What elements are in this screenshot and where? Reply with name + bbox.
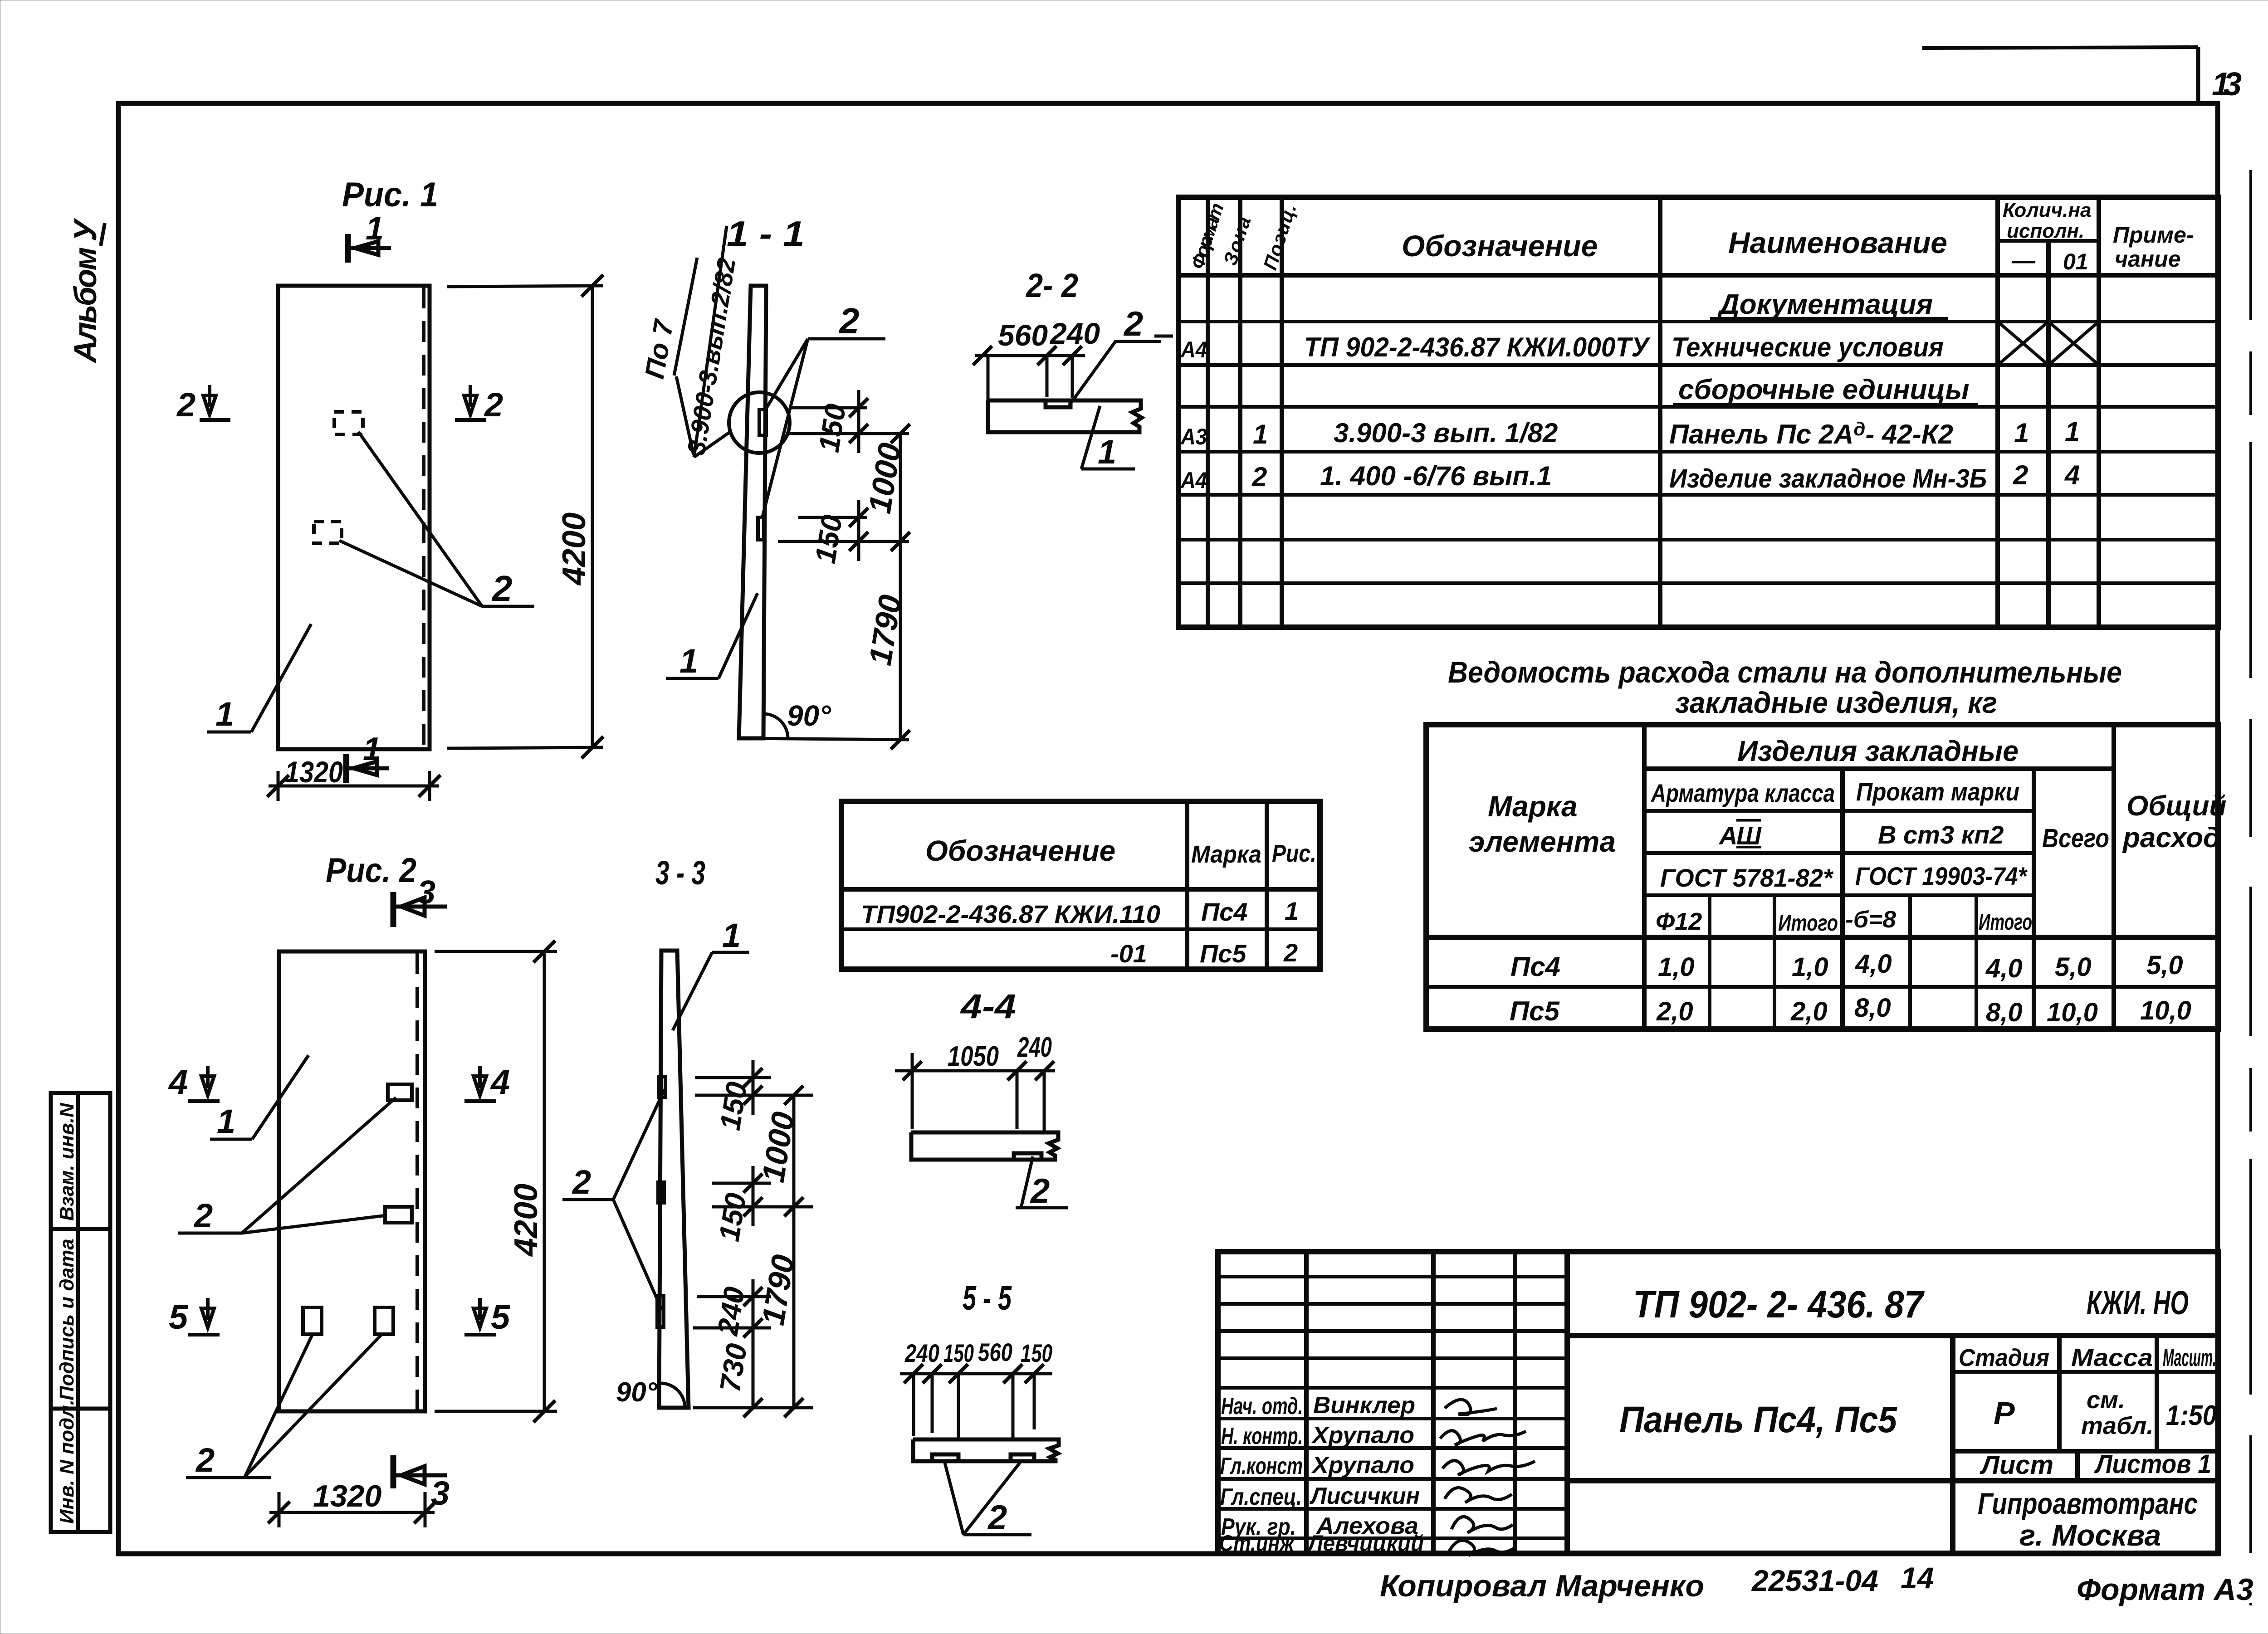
svg-text:табл.: табл. xyxy=(2081,1412,2153,1439)
svg-text:Всего: Всего xyxy=(2042,824,2109,853)
svg-text:4200: 4200 xyxy=(556,512,592,586)
svg-text:Колич.на: Колич.на xyxy=(2003,199,2091,221)
section cut mark 3 top xyxy=(393,874,447,927)
svg-text:150: 150 xyxy=(713,1190,753,1244)
dim 730 (3-3) xyxy=(743,1328,763,1417)
leader to item 1 (Ris.2) xyxy=(210,1055,308,1139)
svg-text:150: 150 xyxy=(809,512,849,566)
svg-text:8,0: 8,0 xyxy=(1986,998,2023,1027)
svg-text:1: 1 xyxy=(215,695,234,733)
svg-text:1: 1 xyxy=(2014,418,2029,448)
svg-text:560: 560 xyxy=(998,318,1048,352)
svg-text:10,0: 10,0 xyxy=(2140,996,2191,1025)
svg-text:Гл.спец.: Гл.спец. xyxy=(1220,1484,1302,1510)
svg-text:240: 240 xyxy=(904,1339,939,1367)
svg-text:Марка: Марка xyxy=(1488,790,1578,823)
svg-text:240: 240 xyxy=(1049,317,1100,350)
panel bar 5-5 xyxy=(913,1439,1059,1461)
dimension 4200 Ris.2 xyxy=(435,941,557,1422)
svg-text:—: — xyxy=(2011,248,2036,274)
leader to item 2 (3-3) xyxy=(562,1089,665,1310)
svg-text:Хрупало: Хрупало xyxy=(1311,1452,1414,1478)
leader to item 2 (4-4) xyxy=(1016,1156,1068,1208)
embedded plate b (3-3) xyxy=(658,1182,664,1203)
svg-text:В ст3 кп2: В ст3 кп2 xyxy=(1878,820,2004,849)
svg-text:ГОСТ 5781-82*: ГОСТ 5781-82* xyxy=(1660,863,1833,892)
dimension 1320 Ris.2 xyxy=(268,1492,436,1527)
svg-text:Нач. отд.: Нач. отд. xyxy=(1221,1393,1303,1419)
embedded plate b (Ris.2) xyxy=(385,1207,412,1223)
svg-text:Документация: Документация xyxy=(1717,289,1933,320)
svg-text:А4: А4 xyxy=(1180,468,1207,493)
svg-text:1:50: 1:50 xyxy=(2166,1400,2217,1431)
svg-text:1: 1 xyxy=(2065,416,2080,447)
svg-text:2: 2 xyxy=(484,386,503,424)
svg-text:Обозначение: Обозначение xyxy=(1402,229,1598,263)
svg-text:Панель Пс 2Ад- 42-К2: Панель Пс 2Ад- 42-К2 xyxy=(1669,418,1953,449)
section mark 2 right xyxy=(455,385,503,424)
svg-text:-01: -01 xyxy=(1110,939,1147,968)
svg-text:Подпись и дата: Подпись и дата xyxy=(56,1239,78,1400)
svg-text:2: 2 xyxy=(987,1498,1007,1537)
svg-text:ТП902-2-436.87 КЖИ.110: ТП902-2-436.87 КЖИ.110 xyxy=(861,900,1160,928)
steel consumption table xyxy=(1426,725,2226,1029)
svg-text:1: 1 xyxy=(363,731,381,767)
svg-text:А3: А3 xyxy=(1180,424,1207,449)
dim 150 lower (1-1) xyxy=(778,500,909,561)
svg-text:14: 14 xyxy=(1901,1561,1934,1595)
svg-text:Стадия: Стадия xyxy=(1959,1344,2049,1371)
svg-text:Ведомость расхода стали на доп: Ведомость расхода стали на дополнительны… xyxy=(1448,655,2122,689)
svg-text:Пс5: Пс5 xyxy=(1510,996,1560,1026)
svg-text:КЖИ. НО: КЖИ. НО xyxy=(2087,1284,2189,1322)
embedded plate c (3-3) xyxy=(657,1296,664,1327)
svg-text:А4: А4 xyxy=(1180,337,1207,362)
svg-text:ТП 902- 2- 436. 87: ТП 902- 2- 436. 87 xyxy=(1633,1283,1925,1326)
svg-text:5 - 5: 5 - 5 xyxy=(963,1279,1012,1317)
dim 1000 (3-3) xyxy=(784,1086,803,1216)
dim 1790 (3-3) xyxy=(693,1207,813,1417)
svg-text:Формат А3: Формат А3 xyxy=(2077,1572,2253,1607)
svg-text:исполн.: исполн. xyxy=(2007,220,2084,242)
svg-text:240: 240 xyxy=(711,1284,751,1338)
embedded plate (4-4) xyxy=(1014,1153,1041,1159)
detail circle xyxy=(729,392,790,453)
leader to item 1 (2-2) xyxy=(1081,406,1135,469)
svg-text:1050: 1050 xyxy=(948,1041,999,1072)
svg-text:3: 3 xyxy=(417,874,435,911)
svg-text:Панель Пс4, Пс5: Панель Пс4, Пс5 xyxy=(1619,1399,1897,1440)
dim line 4-4 xyxy=(895,1053,1055,1131)
left margin stamp xyxy=(51,1093,110,1532)
svg-text:Гипроавтотранс: Гипроавтотранс xyxy=(1978,1487,2198,1520)
svg-text:150: 150 xyxy=(812,401,852,454)
svg-text:2: 2 xyxy=(193,1197,213,1234)
section mark 4 right xyxy=(464,1063,510,1102)
svg-text:5,0: 5,0 xyxy=(2146,951,2183,980)
dimension 1320 Ris.1 xyxy=(267,771,440,801)
svg-text:1320: 1320 xyxy=(313,1479,381,1513)
svg-text:Наименование: Наименование xyxy=(1728,226,1947,259)
embedded plate (dashed) lower xyxy=(314,522,342,543)
svg-text:1: 1 xyxy=(722,917,741,954)
embedded plate left (5-5) xyxy=(932,1454,958,1460)
svg-text:1: 1 xyxy=(1253,419,1268,449)
svg-text:4,0: 4,0 xyxy=(1985,954,2023,983)
svg-text:4-4: 4-4 xyxy=(960,987,1016,1026)
svg-text:1,0: 1,0 xyxy=(1658,952,1695,982)
svg-text:13: 13 xyxy=(2212,66,2242,102)
hidden edge dashed xyxy=(422,288,425,747)
svg-text:Альбом У: Альбом У xyxy=(68,218,103,364)
svg-text:2: 2 xyxy=(491,568,513,609)
svg-text:Листов 1: Листов 1 xyxy=(2094,1449,2211,1479)
svg-text:Н. контр.: Н. контр. xyxy=(1221,1423,1303,1449)
svg-text:1: 1 xyxy=(1285,897,1299,925)
svg-text:Ст.инж: Ст.инж xyxy=(1219,1531,1295,1556)
svg-text:1: 1 xyxy=(217,1102,235,1140)
svg-text:1: 1 xyxy=(1098,433,1116,471)
svg-text:1 - 1: 1 - 1 xyxy=(727,214,805,254)
svg-text:Пс4: Пс4 xyxy=(1201,897,1248,926)
svg-text:Зона: Зона xyxy=(1219,214,1255,268)
svg-text:Общий: Общий xyxy=(2126,790,2226,822)
svg-text:Рис.: Рис. xyxy=(1272,840,1316,867)
svg-text:Ш: Ш xyxy=(1736,821,1762,850)
embedded plate (2-2) xyxy=(1046,401,1070,407)
section mark 5 right xyxy=(464,1298,511,1336)
specification table xyxy=(1154,197,2218,627)
svg-text:1. 400 -6/76 вып.1: 1. 400 -6/76 вып.1 xyxy=(1320,461,1552,491)
svg-text:4: 4 xyxy=(168,1063,188,1102)
section 4-4 view xyxy=(895,987,1068,1210)
section cut mark 1 top xyxy=(348,210,391,263)
svg-text:Марка: Марка xyxy=(1191,841,1261,868)
svg-text:240: 240 xyxy=(1017,1032,1052,1063)
leader to item 1 (3-3) xyxy=(673,952,749,1030)
svg-text:1: 1 xyxy=(366,210,384,247)
leader to item 2 (2-2) xyxy=(1069,341,1161,405)
svg-text:150: 150 xyxy=(1021,1339,1052,1367)
svg-text:Пс4: Пс4 xyxy=(1510,951,1560,982)
svg-text:Копировал Марченко: Копировал Марченко xyxy=(1380,1569,1704,1603)
svg-text:Масса: Масса xyxy=(2071,1344,2153,1371)
svg-text:-б=8: -б=8 xyxy=(1845,907,1896,933)
svg-text:2,0: 2,0 xyxy=(1656,997,1693,1026)
svg-text:2: 2 xyxy=(838,301,860,341)
svg-text:2: 2 xyxy=(195,1441,215,1479)
svg-text:150: 150 xyxy=(714,1079,753,1132)
svg-text:2: 2 xyxy=(572,1163,591,1201)
page corner box with sheet number xyxy=(1922,47,2242,103)
section 1-1 view xyxy=(639,214,910,749)
svg-text:22531-04: 22531-04 xyxy=(1751,1564,1878,1597)
svg-text:5: 5 xyxy=(169,1298,189,1336)
embedded plate a (3-3) xyxy=(659,1077,665,1097)
svg-text:4: 4 xyxy=(490,1063,510,1102)
angle 90 deg (1-1) xyxy=(763,714,788,738)
svg-text:2: 2 xyxy=(176,386,196,424)
svg-text:560: 560 xyxy=(978,1338,1012,1366)
panel outline Ris.1 xyxy=(278,286,430,749)
embedded plate a (Ris.2) xyxy=(388,1084,412,1100)
svg-text:Гл.конст: Гл.конст xyxy=(1220,1453,1303,1479)
svg-text:2: 2 xyxy=(1123,305,1143,343)
footer line xyxy=(1380,1561,2253,1607)
svg-text:2: 2 xyxy=(1251,462,1267,492)
dim 150 lower (3-3) xyxy=(712,1166,813,1226)
panel outline Ris.2 xyxy=(279,951,425,1411)
leader to item 2 bottom (Ris.2) xyxy=(186,1335,381,1478)
svg-text:Масшт.: Масшт. xyxy=(2163,1344,2216,1371)
svg-text:Изделия закладные: Изделия закладные xyxy=(1737,735,2019,767)
svg-text:730: 730 xyxy=(714,1341,753,1394)
svg-text:А: А xyxy=(1718,821,1737,850)
svg-text:8,0: 8,0 xyxy=(1854,993,1891,1023)
svg-text:г. Москва: г. Москва xyxy=(2019,1518,2161,1552)
svg-text:элемента: элемента xyxy=(1469,825,1616,858)
svg-text:Р: Р xyxy=(1994,1395,2015,1431)
dim 150 upper (3-3) xyxy=(695,1060,813,1115)
svg-text:сборочные единицы: сборочные единицы xyxy=(1678,374,1969,405)
leader to item 2 xyxy=(339,432,534,606)
svg-text:1,0: 1,0 xyxy=(1792,952,1828,982)
panel strip section 1-1 xyxy=(739,286,766,738)
svg-text:90°: 90° xyxy=(787,699,831,732)
svg-text:см.: см. xyxy=(2087,1386,2125,1414)
svg-text:ТП 902-2-436.87 КЖИ.000ТУ: ТП 902-2-436.87 КЖИ.000ТУ xyxy=(1304,332,1651,362)
svg-text:закладные изделия, кг: закладные изделия, кг xyxy=(1675,686,1997,719)
album label "Альбом V" xyxy=(68,218,105,364)
svg-text:Технические условия: Технические условия xyxy=(1672,332,1944,362)
svg-text:10,0: 10,0 xyxy=(2047,998,2098,1027)
signatures (squiggles) xyxy=(1440,1400,1535,1556)
svg-text:1: 1 xyxy=(679,642,698,680)
svg-text:Инв. N подл.: Инв. N подл. xyxy=(56,1400,78,1524)
svg-text:5: 5 xyxy=(491,1298,511,1336)
dim 240 (3-3) xyxy=(693,1279,771,1347)
svg-text:Ф12: Ф12 xyxy=(1656,908,1702,935)
svg-text:Хрупало: Хрупало xyxy=(1311,1422,1414,1449)
svg-text:2,0: 2,0 xyxy=(1790,997,1828,1026)
designation-marka table xyxy=(841,801,1320,969)
svg-text:4200: 4200 xyxy=(508,1184,544,1257)
leader to item 2 (5-5) xyxy=(944,1461,1031,1535)
dim 150 upper (1-1) xyxy=(789,390,909,453)
embedded plate c (Ris.2) xyxy=(303,1307,322,1334)
svg-text:Обозначение: Обозначение xyxy=(925,834,1115,867)
svg-text:Итого: Итого xyxy=(1979,909,2032,935)
svg-text:Арматура класса: Арматура класса xyxy=(1650,779,1835,807)
svg-text:2: 2 xyxy=(1030,1172,1050,1210)
svg-text:150: 150 xyxy=(943,1339,974,1367)
svg-text:Взам. инв.N: Взам. инв.N xyxy=(56,1102,78,1221)
svg-text:01: 01 xyxy=(2063,249,2088,274)
svg-text:Рис. 1: Рис. 1 xyxy=(342,176,438,214)
section cut mark 1 bottom xyxy=(346,731,389,783)
svg-text:3 - 3: 3 - 3 xyxy=(655,854,705,892)
svg-text:3.900-3 вып. 1/82: 3.900-3 вып. 1/82 xyxy=(1334,418,1558,448)
svg-text:Левчицкий: Левчицкий xyxy=(1307,1531,1424,1556)
dimension 4200 Ris.1 xyxy=(447,275,603,758)
svg-text:расход: расход xyxy=(2122,822,2220,854)
hidden edge dashed Ris.2 xyxy=(415,953,419,1410)
sheet edge broken line right xyxy=(2249,170,2252,1605)
embedded plate (dashed) upper xyxy=(334,412,363,434)
svg-text:Лист: Лист xyxy=(1980,1450,2053,1480)
section 5-5 view xyxy=(900,1279,1059,1537)
svg-text:Рис. 2: Рис. 2 xyxy=(326,851,416,890)
embedded plate upper (section 1-1) xyxy=(759,410,766,435)
steel consumption table title xyxy=(1448,655,2122,719)
section 2-2 view xyxy=(973,267,1161,471)
dim line 5-5 xyxy=(900,1364,1052,1439)
section cut mark 3 bottom xyxy=(393,1455,450,1512)
figure Ris.1 panel plan xyxy=(176,176,603,801)
svg-text:4,0: 4,0 xyxy=(1855,949,1892,979)
svg-text:Прокат марки: Прокат марки xyxy=(1856,777,2019,806)
svg-text:чание: чание xyxy=(2115,246,2181,272)
svg-text:Приме-: Приме- xyxy=(2113,222,2194,248)
section 3-3 view xyxy=(562,854,813,1417)
title block xyxy=(1218,1252,2218,1556)
svg-text:5,0: 5,0 xyxy=(2055,952,2092,982)
angle 90 deg (3-3) xyxy=(660,1383,685,1408)
svg-text:Изделие закладное Мн-3Б: Изделие закладное Мн-3Б xyxy=(1669,464,1987,493)
svg-text:ГОСТ 19903-74*: ГОСТ 19903-74* xyxy=(1855,862,2028,890)
embedded plate d (Ris.2) xyxy=(375,1307,393,1334)
panel bar 2-2 xyxy=(988,400,1142,432)
leader to item 2 (section 1-1) xyxy=(762,339,885,518)
leader to item 1 Ris.1 xyxy=(207,624,311,732)
panel bar 4-4 xyxy=(911,1132,1058,1160)
dim 1000 (1-1) xyxy=(891,424,910,551)
section mark 5 left xyxy=(169,1298,220,1336)
dim 1790 (1-1) xyxy=(739,541,910,749)
section mark 2 left xyxy=(176,385,230,424)
svg-text:1320: 1320 xyxy=(285,755,343,789)
embedded plate lower (section 1-1) xyxy=(758,517,764,540)
svg-text:Позиц.: Позиц. xyxy=(1259,201,1300,273)
svg-text:2- 2: 2- 2 xyxy=(1025,267,1078,304)
leader to item 2 middle (Ris.2) xyxy=(178,1097,396,1233)
svg-text:Итого: Итого xyxy=(1778,910,1838,936)
reference flag "По 7 / 3.900-3.вып.2/82" xyxy=(674,226,730,457)
svg-text:Винклер: Винклер xyxy=(1313,1392,1415,1419)
svg-text:3: 3 xyxy=(431,1474,450,1512)
svg-text:4: 4 xyxy=(2064,460,2080,490)
svg-text:2: 2 xyxy=(1283,938,1298,967)
svg-text:90°: 90° xyxy=(616,1377,658,1407)
panel strip section 3-3 xyxy=(659,951,689,1408)
leader to item 1 (1-1) xyxy=(666,593,758,678)
dim line 2-2 xyxy=(973,346,1085,432)
svg-text:2: 2 xyxy=(2013,460,2028,490)
svg-text:Пс5: Пс5 xyxy=(1200,939,1246,968)
section mark 4 left xyxy=(168,1063,220,1102)
embedded plate right (5-5) xyxy=(1011,1454,1034,1460)
svg-text:Лисичкин: Лисичкин xyxy=(1309,1483,1420,1509)
figure Ris.2 panel plan xyxy=(168,851,557,1527)
